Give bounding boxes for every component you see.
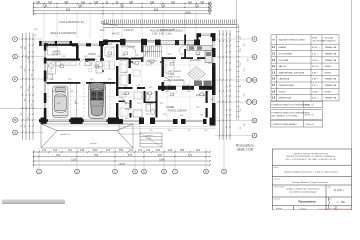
- svg-text:2078: 2078: [119, 162, 125, 166]
- svg-text:TERAKOTA: TERAKOTA: [325, 97, 337, 100]
- room table header: [272, 37, 336, 43]
- svg-text:KUCHNIA: KUCHNIA: [190, 59, 201, 62]
- right dimension chains: [220, 30, 231, 140]
- wall exterior top main: [103, 39, 200, 45]
- svg-text:10.24 ✓: 10.24 ✓: [312, 59, 320, 62]
- svg-text:1860: 1860: [159, 157, 165, 161]
- extra tiny marks: [86, 60, 162, 72]
- garage room fixtures: [48, 62, 103, 80]
- wall interior wc x145-157: [144, 91, 158, 118]
- svg-text:NR: NR: [272, 40, 276, 42]
- svg-text:±0.00: ±0.00: [146, 138, 152, 140]
- windows left wall: [44, 51, 45, 108]
- svg-text:F: F: [254, 37, 256, 41]
- svg-text:DESKI: DESKI: [325, 91, 332, 93]
- pilaster crossbars bottom: [39, 119, 121, 122]
- svg-text:NAZWA POMIESZCZENIA: NAZWA POMIESZCZENIA: [279, 39, 306, 42]
- svg-text:A: A: [253, 134, 255, 138]
- svg-text:198: 198: [80, 148, 85, 152]
- svg-text:128: 128: [94, 0, 99, 4]
- svg-text:TERAKOTA: TERAKOTA: [325, 84, 337, 87]
- svg-text:MG-INŻ PROSZKOWSKI, UL. JAGIEL: MG-INŻ PROSZKOWSKI, UL. JAGIELLOŃSKA 20 …: [287, 155, 336, 158]
- paving strip south: [119, 118, 218, 128]
- svg-text:OBIEG. C.W.: OBIEG. C.W.: [168, 77, 180, 79]
- kitchen text block: [168, 71, 185, 81]
- svg-text:5.87 ✓: 5.87 ✓: [312, 78, 319, 81]
- svg-text:692: 692: [66, 7, 71, 11]
- wall interior x207 vertical: [206, 91, 208, 118]
- svg-text:21.34 ✓: 21.34 ✓: [312, 65, 320, 68]
- left dimension ticks: [22, 38, 34, 133]
- car 2 (right, dark): [89, 83, 106, 119]
- svg-text:91.41 m²: 91.41 m²: [305, 104, 314, 107]
- canopy dashed edges through garage: [48, 84, 110, 118]
- interior dimension texts: [50, 54, 214, 120]
- summary row 3: [271, 120, 323, 127]
- svg-text:620: 620: [158, 153, 163, 157]
- svg-text:755: 755: [94, 153, 99, 157]
- svg-text:F: F: [14, 37, 16, 41]
- svg-text:B: B: [253, 119, 255, 123]
- svg-text:112: 112: [188, 0, 193, 4]
- wall exterior left: [41, 43, 47, 124]
- svg-text:działka nr 4-567/4, gm. Skiern: działka nr 4-567/4, gm. Skierniewice: [286, 187, 320, 190]
- svg-text:13.84 ✓: 13.84 ✓: [312, 90, 320, 93]
- svg-text:TERAKOTA: TERAKOTA: [325, 59, 337, 62]
- svg-text:KUCHNIA: KUCHNIA: [279, 59, 289, 62]
- title block company: [285, 152, 336, 161]
- svg-text:208: 208: [150, 0, 155, 4]
- left dimension numbers: [21, 44, 34, 127]
- gray bar bottom left: [2, 200, 65, 204]
- svg-text:LINIA ZABUDOWY 6m: LINIA ZABUDOWY 6m: [59, 21, 84, 24]
- svg-text:3.85 ✓: 3.85 ✓: [312, 71, 319, 74]
- svg-text:1845: 1845: [185, 10, 191, 14]
- svg-text:236: 236: [43, 4, 48, 8]
- svg-text:01.2017 r.: 01.2017 r.: [334, 189, 345, 192]
- svg-text:208: 208: [168, 148, 173, 152]
- svg-text:GARDEROBA, SJEDZWA: GARDEROBA, SJEDZWA: [279, 71, 305, 74]
- svg-text:230: 230: [156, 148, 161, 152]
- svg-text:Budowa budynku mieszkaln. – w: Budowa budynku mieszkaln. – w hali os: w…: [284, 170, 338, 173]
- bottom dimension lines: [34, 150, 211, 167]
- wall interior garage top horizontal: [46, 59, 104, 61]
- svg-text:E: E: [14, 55, 16, 59]
- extra furniture noise: [48, 61, 152, 116]
- wall interior garage/house vertical: [116, 44, 118, 118]
- svg-text:131: 131: [48, 0, 53, 4]
- stairs: [144, 46, 162, 57]
- svg-text:POWIERZCHNIA GARAŻU: POWIERZCHNIA GARAŻU: [272, 123, 298, 126]
- svg-text:19.30 m²: 19.30 m²: [305, 123, 314, 126]
- driveway edge: [47, 125, 120, 127]
- svg-text:DESKI: DESKI: [325, 72, 332, 74]
- windows bottom wall: [123, 120, 203, 121]
- kitchen appliances: [189, 46, 211, 56]
- svg-text:140: 140: [200, 0, 205, 4]
- svg-text:391: 391: [120, 4, 125, 8]
- svg-text:POSADZKI: POSADZKI: [325, 39, 336, 42]
- svg-text:155: 155: [146, 148, 151, 152]
- window top garage: [78, 44, 99, 45]
- texts above top wall: [100, 30, 134, 36]
- room table grid: [271, 35, 339, 101]
- hatched band top main: [161, 40, 196, 45]
- svg-text:21.41 ✓: 21.41 ✓: [312, 46, 320, 49]
- svg-text:575: 575: [128, 153, 133, 157]
- canopy roof outline: [41, 124, 133, 148]
- svg-text:1.90 / 1.45 / 1.0m: 1.90 / 1.45 / 1.0m: [152, 32, 171, 35]
- bay top right walls: [197, 33, 216, 43]
- signature squiggle: [328, 198, 329, 210]
- room labels: [52, 43, 208, 113]
- svg-text:760: 760: [56, 153, 61, 157]
- svg-text:H=2.05: H=2.05: [112, 34, 120, 36]
- title block frame: [272, 149, 351, 210]
- svg-text:data: data: [328, 185, 332, 188]
- top dimension ticks: [33, 3, 211, 15]
- plot boundary left: [0, 108, 43, 110]
- wall interior garage lower horizontal: [46, 82, 115, 84]
- right axis stubs: [215, 39, 252, 136]
- svg-text:1.50/1.45: 1.50/1.45: [124, 30, 134, 32]
- svg-text:TERAKOTA: TERAKOTA: [325, 78, 337, 81]
- svg-text:RODZAJ: RODZAJ: [325, 37, 334, 40]
- garage doors bottom: [47, 120, 109, 122]
- svg-text:spadek 2%: spadek 2%: [60, 134, 70, 136]
- svg-text:23.8: 23.8: [100, 30, 105, 32]
- svg-text:PIEC GRZEW.: PIEC GRZEW.: [168, 71, 182, 73]
- svg-text:obiekt: obiekt: [274, 166, 279, 169]
- bottom axis bubbles: [37, 169, 227, 174]
- top dimension line 1: [34, 2, 211, 16]
- svg-text:KOTŁOWNIA: KOTŁOWNIA: [279, 53, 293, 56]
- svg-text:POKÓJ DZIENNY: POKÓJ DZIENNY: [168, 110, 188, 113]
- fence line east (vertical): [236, 0, 239, 120]
- svg-text:KOTŁ.: KOTŁ.: [106, 43, 113, 46]
- wall exterior right: [212, 33, 216, 117]
- dim line between cars: [76, 84, 78, 118]
- south dim texts: [150, 130, 208, 132]
- wall interior kitchen x185: [184, 35, 186, 59]
- svg-text:196: 196: [129, 0, 134, 4]
- svg-text:2.47 ✓: 2.47 ✓: [312, 84, 319, 87]
- svg-text:Z ZAM.: Z ZAM.: [168, 73, 175, 76]
- svg-text:TERAKOTA: TERAKOTA: [325, 53, 337, 56]
- svg-text:275: 275: [106, 148, 111, 152]
- top axis end bubbles: [208, 2, 211, 12]
- top-left dim texts: [34, 29, 38, 37]
- sheet right border: [351, 0, 353, 149]
- entry landing: [119, 124, 140, 134]
- summary row 1: [271, 101, 323, 107]
- window band top main: [126, 41, 156, 42]
- svg-text:260: 260: [93, 148, 98, 152]
- svg-text:131: 131: [42, 148, 47, 152]
- wall interior y58 horizontal: [119, 58, 142, 60]
- svg-text:Rzut parteru: Rzut parteru: [298, 199, 315, 203]
- svg-text:3.40 ✓: 3.40 ✓: [312, 97, 319, 100]
- svg-text:170: 170: [138, 148, 143, 152]
- wall interior x142 vertical: [141, 45, 143, 62]
- canopy hips: [41, 124, 133, 148]
- exterior stairs entry: [140, 133, 162, 147]
- svg-text:A: A: [14, 131, 16, 135]
- svg-text:E: E: [253, 55, 255, 59]
- wall interior y88 thick dark: [119, 86, 216, 90]
- svg-text:96.21 m²: 96.21 m²: [305, 114, 314, 117]
- svg-text:SALON: SALON: [279, 65, 287, 68]
- svg-text:B: B: [14, 118, 16, 122]
- svg-text:POM.: POM.: [125, 108, 131, 111]
- svg-text:285: 285: [180, 148, 185, 152]
- svg-text:242: 242: [53, 148, 58, 152]
- svg-text:TERAKOTA: TERAKOTA: [325, 46, 337, 49]
- svg-text:TARAS: TARAS: [88, 53, 96, 56]
- svg-text:POW.: POW.: [312, 38, 318, 40]
- svg-text:131: 131: [81, 0, 86, 4]
- svg-text:1.4 u04 CHB pracownia: 1.4 u04 CHB pracownia: [318, 207, 351, 210]
- svg-text:skala 1:100: skala 1:100: [237, 148, 254, 152]
- furniture misc: [48, 47, 175, 99]
- wall interior hall vertical: [101, 46, 103, 59]
- svg-text:POKÓJ: POKÓJ: [279, 90, 286, 93]
- bathroom fixtures: [133, 94, 155, 117]
- car 1 (left, outline): [53, 86, 69, 118]
- svg-text:1 : 100: 1 : 100: [337, 201, 345, 204]
- svg-text:21.41 m²: 21.41 m²: [52, 53, 62, 56]
- svg-text:wejście: wejście: [146, 135, 154, 137]
- right dimension numbers: [240, 35, 250, 129]
- right dimension ticks: [219, 34, 231, 137]
- bottom axis stubs: [39, 148, 224, 169]
- entry area texts: [60, 134, 154, 145]
- svg-text:ŁAZIENKA: ŁAZIENKA: [279, 78, 290, 81]
- svg-text:131: 131: [129, 148, 134, 152]
- interior leader lines: [60, 46, 204, 106]
- svg-text:4.72 ✓: 4.72 ✓: [312, 53, 319, 56]
- svg-text:198: 198: [64, 0, 69, 4]
- svg-text:woj. łódzkie (zawidowskiego): woj. łódzkie (zawidowskiego): [290, 191, 317, 193]
- svg-text:610: 610: [188, 153, 193, 157]
- axis 9 long line: [223, 100, 225, 148]
- counter south of kitchen wall: [194, 81, 212, 87]
- bay window: [201, 34, 211, 35]
- svg-text:818: 818: [154, 7, 159, 11]
- bottom dimension numbers: [42, 148, 201, 166]
- wall exterior top garage: [44, 41, 104, 46]
- kitchen counters: [187, 46, 212, 63]
- room number markers: [60, 52, 204, 96]
- svg-text:221: 221: [171, 0, 176, 4]
- svg-text:rysunek: rysunek: [274, 198, 280, 200]
- svg-text:PRZEDSIONEK: PRZEDSIONEK: [279, 85, 295, 87]
- fence line north (sawtooth): [103, 19, 238, 27]
- svg-text:UŻYTKOWA: UŻYTKOWA: [312, 39, 325, 42]
- bottom dimension ticks: [33, 151, 211, 166]
- svg-text:Państwo Wioletta i Paweł Czerw: Państwo Wioletta i Paweł Czerwonka: [292, 181, 329, 184]
- right axis bubbles: [247, 37, 257, 138]
- door arcs: [79, 45, 186, 109]
- svg-text:ZESPÓŁ USŁUG PROJEKTOWYCH: ZESPÓŁ USŁUG PROJEKTOWYCH: [294, 152, 329, 155]
- svg-text:funkcja: funkcja: [276, 208, 283, 210]
- svg-text:Czerkas: Czerkas: [300, 207, 307, 210]
- room table rows: [272, 46, 337, 99]
- pergola trellis: [39, 41, 72, 45]
- wall interior y58 right horizontal: [164, 57, 212, 59]
- svg-text:310: 310: [196, 148, 201, 152]
- svg-text:1518: 1518: [71, 157, 77, 161]
- svg-text:460: 460: [78, 4, 83, 8]
- svg-text:skala: skala: [328, 198, 332, 200]
- counter outline: [164, 81, 184, 87]
- svg-text:CEGŁA KLINKIEROWA: CEGŁA KLINKIEROWA: [50, 32, 77, 35]
- svg-text:105: 105: [36, 0, 41, 4]
- wall interior bath x131: [119, 100, 132, 118]
- svg-text:250: 250: [119, 148, 124, 152]
- svg-text:adres budowy: adres budowy: [274, 186, 285, 188]
- svg-text:BEZ GARAŻU I KOTŁOWNI: BEZ GARAŻU I KOTŁOWNI: [272, 115, 299, 118]
- windows right wall: [213, 41, 215, 103]
- projection lines top: [44, 12, 196, 38]
- svg-text:311: 311: [68, 148, 73, 152]
- svg-text:426: 426: [161, 4, 166, 8]
- left dimension chains: [23, 33, 34, 140]
- svg-text:TEL. +0 461 833-48-37, TEL./FA: TEL. +0 461 833-48-37, TEL./FAX. +0 461-…: [285, 158, 336, 161]
- left axis bubbles: [13, 37, 18, 135]
- projection lines through plan: [46, 45, 236, 120]
- canopy ridge: [57, 130, 117, 132]
- leader circle: [101, 21, 117, 26]
- svg-text:DESKI: DESKI: [325, 66, 332, 68]
- svg-text:GARAŻ: GARAŻ: [279, 46, 287, 49]
- svg-text:opaska: opaska: [90, 143, 98, 145]
- svg-text:inwestor: inwestor: [274, 177, 281, 180]
- summary row 2: [271, 110, 323, 119]
- wall interior terrace divider: [76, 45, 79, 60]
- svg-text:253: 253: [195, 4, 200, 8]
- svg-text:WIATROŁAP: WIATROŁAP: [279, 97, 292, 100]
- wall exterior bottom: [71, 118, 216, 126]
- left axis stubs: [17, 39, 44, 133]
- wall interior vestibule vertical: [129, 58, 131, 84]
- wall interior stairs x162: [162, 57, 164, 91]
- top dimension numbers: [36, 0, 205, 14]
